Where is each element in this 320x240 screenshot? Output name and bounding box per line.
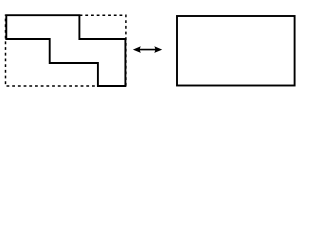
dashed bounding box of staircase — [6, 15, 126, 86]
right arrowhead — [154, 46, 162, 53]
staircase polygon — [6, 15, 125, 86]
solid rectangle — [177, 16, 295, 86]
double-headed arrow shaft — [139, 49, 157, 51]
left arrowhead — [133, 46, 141, 53]
